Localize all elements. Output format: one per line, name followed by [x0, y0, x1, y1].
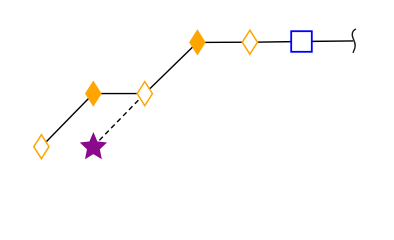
wire: top hollow diamond to square: [250, 41, 302, 44]
wire (dashed): purple star to middle hollow diamond: [93, 94, 144, 147]
wire: top row filled diamond to hollow diamond: [197, 41, 250, 43]
node: purple star: [81, 133, 106, 158]
wire: square to reducing-end squiggle: [302, 40, 354, 43]
wire: middle row horizontal: [93, 93, 145, 95]
node: hollow diamond (middle row): [137, 82, 152, 106]
node: filled diamond (top row): [190, 30, 205, 54]
node: blue open square: [291, 31, 312, 52]
node: filled diamond (middle row): [86, 82, 101, 106]
node: hollow diamond (lower left): [34, 135, 49, 159]
wire: middle hollow diamond to top filled diamond: [145, 42, 198, 93]
wire: lower hollow diamond to middle filled diamond: [41, 94, 93, 147]
reducing-end squiggle (vertical wavy line): [352, 29, 355, 52]
node: hollow diamond (top row): [242, 30, 257, 54]
